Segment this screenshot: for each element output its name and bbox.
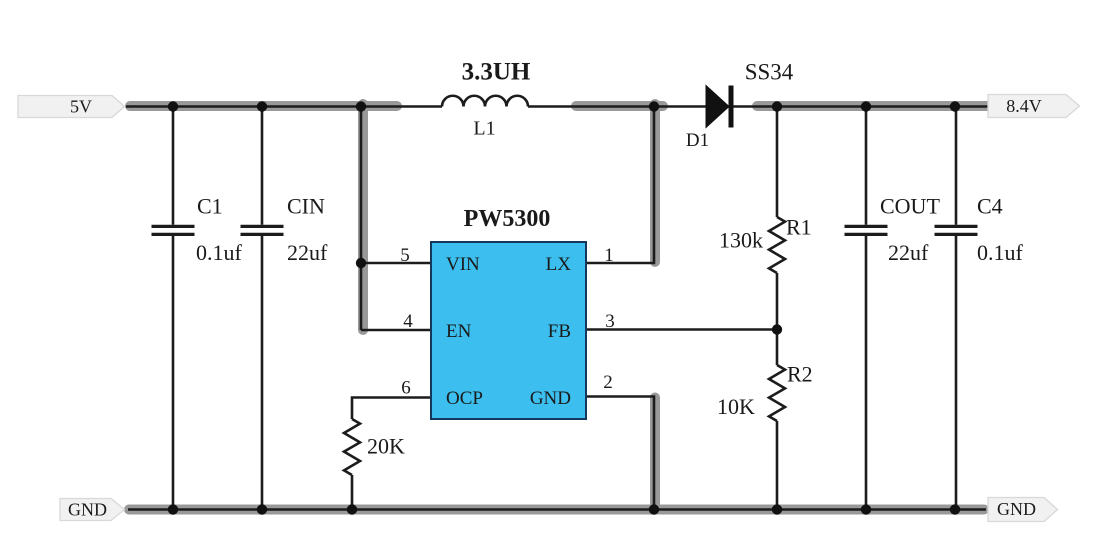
svg-text:SS34: SS34 bbox=[745, 60, 794, 85]
svg-text:5V: 5V bbox=[70, 97, 92, 117]
wire: R1 top lead from rail bbox=[776, 107, 779, 218]
svg-text:130k: 130k bbox=[719, 228, 763, 253]
svg-text:20K: 20K bbox=[367, 434, 405, 459]
wire: C4 bottom leg bbox=[955, 236, 958, 510]
wire: top rail left (5V tag to inductor) bbox=[126, 105, 442, 108]
wire: FB pin 3 to divider node bbox=[586, 328, 777, 331]
svg-text:5: 5 bbox=[400, 245, 410, 266]
wire: C1 top leg bbox=[172, 107, 175, 225]
wire: COUT bottom leg bbox=[865, 236, 868, 510]
wire: C4 top leg bbox=[955, 107, 958, 225]
svg-text:10K: 10K bbox=[717, 394, 755, 419]
net highlight: GND pin vertical drop bbox=[650, 398, 660, 509]
node 8.4V output tag bbox=[988, 95, 1080, 118]
wire: GND pin 2 to bottom rail bbox=[586, 397, 654, 510]
svg-text:D1: D1 bbox=[686, 130, 709, 151]
wire: CIN top leg bbox=[261, 107, 264, 225]
wire: VIN pin 5 stub bbox=[361, 262, 431, 265]
svg-text:1: 1 bbox=[604, 245, 614, 266]
wire: CIN bottom leg bbox=[261, 236, 264, 510]
svg-text:GND: GND bbox=[530, 388, 571, 409]
wire: 20K resistor bottom lead bbox=[351, 475, 354, 510]
junction dots bottom rail bbox=[168, 504, 178, 514]
wire: top rail (inductor to 8.4V tag, through diode) bbox=[528, 105, 988, 108]
svg-text:GND: GND bbox=[997, 499, 1036, 519]
wire: COUT top leg bbox=[865, 107, 868, 225]
wire: bottom GND rail bbox=[128, 508, 986, 511]
net highlight: 8.4V output rail bbox=[757, 101, 988, 111]
svg-text:22uf: 22uf bbox=[888, 240, 929, 265]
svg-text:22uf: 22uf bbox=[287, 240, 328, 265]
svg-text:3.3UH: 3.3UH bbox=[462, 59, 531, 86]
svg-text:6: 6 bbox=[401, 378, 411, 399]
svg-text:4: 4 bbox=[403, 311, 413, 332]
wire: OCP pin 6 stub bbox=[352, 398, 431, 420]
node GND tag left bbox=[60, 499, 125, 521]
junction dot VIN tap bbox=[356, 258, 366, 268]
svg-text:C1: C1 bbox=[197, 194, 223, 219]
svg-text:C4: C4 bbox=[977, 194, 1003, 219]
net highlight: LX vertical drop bbox=[650, 104, 660, 262]
svg-text:8.4V: 8.4V bbox=[1006, 96, 1042, 116]
svg-text:0.1uf: 0.1uf bbox=[196, 240, 243, 265]
svg-text:CIN: CIN bbox=[287, 194, 325, 219]
wire: C1 bottom leg bbox=[172, 236, 175, 510]
net highlight: 5V vertical drop to VIN/EN bbox=[358, 104, 368, 330]
inductor L1 bbox=[442, 96, 528, 107]
net highlight: GND bottom rail bbox=[129, 505, 984, 515]
svg-text:PW5300: PW5300 bbox=[464, 206, 551, 232]
wire: LX pin 1 to top rail bbox=[586, 107, 654, 264]
capacitor C1 bbox=[152, 226, 195, 234]
svg-text:VIN: VIN bbox=[446, 254, 480, 275]
svg-text:L1: L1 bbox=[473, 118, 495, 140]
svg-text:EN: EN bbox=[446, 321, 472, 342]
svg-text:R1: R1 bbox=[786, 215, 812, 240]
resistor R2 bbox=[769, 365, 785, 421]
svg-text:GND: GND bbox=[68, 500, 107, 520]
net highlight: LX top rail segment bbox=[576, 101, 663, 111]
wire: R1 bottom lead to FB node bbox=[776, 273, 779, 330]
svg-text:LX: LX bbox=[546, 254, 572, 275]
svg-text:R2: R2 bbox=[787, 362, 813, 387]
svg-text:FB: FB bbox=[548, 321, 571, 342]
capacitor COUT bbox=[845, 226, 888, 234]
diode D1 bbox=[706, 86, 729, 128]
svg-text:3: 3 bbox=[605, 311, 615, 332]
resistor R1 bbox=[769, 217, 785, 273]
op-amp U1: PW5300 regulator IC bbox=[431, 242, 586, 419]
node 5V input tag bbox=[18, 96, 125, 118]
capacitor CIN bbox=[241, 226, 284, 234]
capacitor C4 bbox=[935, 226, 978, 234]
svg-text:OCP: OCP bbox=[446, 388, 483, 409]
junction dots top rail bbox=[168, 101, 178, 111]
net highlight: 5V top rail bbox=[130, 101, 397, 111]
svg-text:COUT: COUT bbox=[880, 194, 940, 219]
wire: R2 bottom lead to GND rail bbox=[776, 421, 779, 510]
svg-text:2: 2 bbox=[603, 372, 613, 393]
node GND tag right bbox=[988, 498, 1058, 522]
svg-text:0.1uf: 0.1uf bbox=[977, 240, 1024, 265]
wire: EN pin 4 stub bbox=[361, 329, 431, 332]
wire: 5V net vertical to VIN and EN bbox=[360, 107, 363, 331]
junction dot FB divider node bbox=[772, 324, 782, 334]
resistor 20K (OCP) bbox=[344, 419, 360, 475]
